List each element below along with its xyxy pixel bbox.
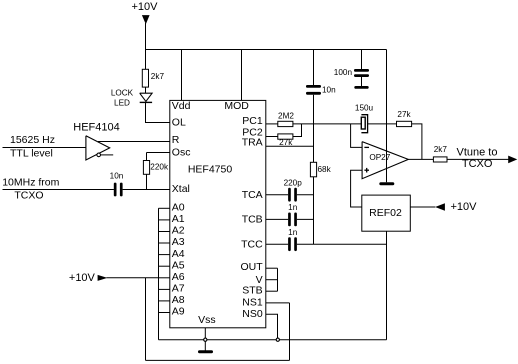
wire 10MHz input: [3, 189, 114, 191]
resistor 220k: [143, 161, 149, 175]
wire LED to OL pin: [146, 102, 171, 122]
wire NS0 stub and drop: [266, 314, 278, 338]
svg-text:1n: 1n: [288, 228, 298, 237]
svg-text:A9: A9: [172, 306, 185, 318]
wire 27k to PC1 node riser: [293, 124, 302, 137]
wire PC2 stub: [266, 136, 278, 138]
capacitor 10n (loop filter): [306, 85, 321, 88]
wire +10V to address bus: [107, 277, 159, 279]
wire +10V drop to bottom rail: [145, 278, 147, 361]
svg-text:68k: 68k: [318, 165, 332, 174]
svg-text:TRA: TRA: [242, 136, 263, 148]
wire 10n to Xtal pin: [123, 189, 170, 191]
svg-text:Vss: Vss: [198, 314, 216, 326]
wire +10V arrow to bus: [145, 23, 147, 50]
power +10V right arrow: [435, 203, 445, 211]
resistor 2k7 (LED series): [142, 69, 148, 87]
wire 100n to ground: [361, 77, 363, 86]
svg-text:27k: 27k: [397, 110, 411, 119]
wire TCA stub: [266, 194, 288, 196]
LED lock indicator: [140, 93, 152, 101]
svg-text:OUT: OUT: [241, 261, 264, 273]
wire NS1 riser: [289, 303, 291, 361]
wire top +10V bus: [146, 49, 387, 51]
svg-text:2k7: 2k7: [151, 72, 165, 81]
wire TRA stub: [266, 145, 314, 147]
svg-text:Vdd: Vdd: [172, 100, 191, 112]
wire MOD drop from bus: [241, 50, 243, 101]
svg-text:A7: A7: [172, 283, 185, 295]
op IC U1 HEF4750 body: [170, 100, 266, 327]
wire TCC to REF02 ground node: [297, 243, 387, 245]
address bus vertical: [158, 208, 160, 339]
svg-text:TTL level: TTL level: [10, 148, 53, 160]
svg-text:15625 Hz: 15625 Hz: [10, 134, 55, 146]
wire 2k7 to LED: [145, 87, 147, 93]
wire A6 stub: [159, 277, 171, 279]
resistor 27k (feedback): [397, 121, 412, 126]
svg-text:TCXO: TCXO: [462, 158, 493, 170]
svg-text:+10V: +10V: [69, 272, 96, 284]
svg-text:HEF4750: HEF4750: [188, 163, 233, 175]
svg-text:OP27: OP27: [369, 153, 390, 162]
wire TCC stub: [266, 243, 288, 245]
wire NS1 stub: [266, 302, 290, 304]
svg-text:A2: A2: [172, 225, 185, 237]
wire non-inverting input from REF02: [351, 170, 363, 207]
ground symbol 100n: [354, 86, 368, 89]
svg-text:A4: A4: [172, 248, 185, 260]
svg-text:150u: 150u: [355, 104, 374, 113]
wire TCB to 68k node: [297, 218, 314, 220]
wire 15625Hz input: [3, 147, 86, 149]
wire 10n to 68k: [313, 95, 315, 163]
wire V stub: [266, 279, 278, 281]
wire A1 stub: [159, 219, 171, 221]
svg-text:27k: 27k: [279, 138, 293, 147]
wire 68k to TCC: [313, 177, 315, 244]
op-amp U3 OP27: [362, 142, 408, 179]
wire A9 stub: [159, 312, 171, 314]
wire PC1 node to 150u: [293, 123, 361, 125]
wire REF02 ground drop: [386, 231, 388, 340]
wire output to Vtune arrow: [447, 158, 509, 160]
svg-text:100n: 100n: [334, 68, 353, 77]
wire Osc to 220k: [146, 153, 148, 161]
capacitor 100n: [354, 69, 369, 72]
svg-text:LOCK: LOCK: [111, 89, 134, 98]
wire bus drop to op-amp supply rail: [386, 50, 388, 141]
wire A2 stub: [159, 231, 171, 233]
wire OUT stub: [266, 267, 278, 269]
wire OUT-V-STB tie: [277, 268, 279, 291]
svg-text:LED: LED: [114, 99, 130, 108]
wire A0 stub: [159, 207, 171, 209]
svg-text:A6: A6: [172, 271, 185, 283]
svg-text:A0: A0: [172, 202, 185, 214]
junction circle NS0: [276, 338, 279, 341]
power +10V top arrow: [142, 15, 150, 24]
svg-text:STB: STB: [242, 285, 262, 297]
wire 220k to Xtal wire: [146, 174, 148, 189]
wire TCB stub: [266, 218, 288, 220]
resistor 2M2: [278, 121, 293, 126]
svg-text:PC1: PC1: [242, 115, 263, 127]
wire A7 stub: [159, 288, 171, 290]
svg-text:TCB: TCB: [242, 214, 263, 226]
wire bus to 10n: [313, 50, 315, 86]
wire STB stub: [266, 290, 278, 292]
capacitor 1n (TCC): [288, 237, 291, 251]
junction circle Vss crossover: [204, 338, 207, 341]
wire REF02 to +10V arrow: [410, 206, 435, 208]
wire 150u to 27k: [368, 123, 397, 125]
wire A5 stub: [159, 265, 171, 267]
svg-text:2k7: 2k7: [434, 145, 448, 154]
wire Osc pin: [147, 152, 171, 154]
svg-text:NS1: NS1: [242, 296, 263, 308]
svg-text:NS0: NS0: [242, 308, 263, 320]
wire bus to R 2k7: [145, 50, 147, 70]
capacitor 10n (Xtal coupling): [114, 183, 117, 197]
wire A8 stub: [159, 300, 171, 302]
resistor 27k (PC2): [278, 134, 293, 139]
svg-text:A8: A8: [172, 294, 185, 306]
svg-text:+10V: +10V: [132, 1, 159, 13]
wire TCA to 68k node: [297, 194, 314, 196]
arrow Vtune output: [508, 156, 517, 164]
svg-text:HEF4104: HEF4104: [73, 122, 119, 134]
svg-text:Osc: Osc: [172, 146, 191, 158]
svg-text:2M2: 2M2: [278, 112, 294, 121]
resistor 68k: [310, 162, 316, 177]
svg-text:220p: 220p: [284, 179, 303, 188]
power +10V mid arrow: [98, 275, 108, 281]
wire PC1 stub: [266, 123, 278, 125]
op IC U4 REF02 body: [362, 195, 411, 231]
svg-text:MOD: MOD: [224, 100, 249, 112]
svg-text:TCA: TCA: [242, 189, 263, 201]
svg-text:10n: 10n: [322, 86, 336, 95]
wire bottom +10V rail: [146, 359, 290, 361]
svg-text:R: R: [172, 134, 180, 146]
svg-text:10MHz from: 10MHz from: [2, 177, 59, 189]
svg-text:TCC: TCC: [241, 239, 263, 251]
ground symbol op-amp: [379, 182, 394, 185]
wire Vdd drop from bus: [181, 50, 183, 101]
wire A3 stub: [159, 242, 171, 244]
wire op-amp supply drop through symbol: [386, 140, 388, 182]
wire A4 stub: [159, 254, 171, 256]
wire inverting input: [351, 124, 363, 147]
wire 27k to output node: [412, 124, 422, 159]
svg-text:A5: A5: [172, 259, 185, 271]
svg-text:A1: A1: [172, 213, 185, 225]
svg-text:220k: 220k: [150, 163, 169, 172]
wire op-amp output: [408, 158, 433, 160]
svg-text:Xtal: Xtal: [172, 183, 190, 195]
resistor 2k7 (output): [433, 157, 447, 162]
svg-text:A3: A3: [172, 236, 185, 248]
svg-text:OL: OL: [172, 116, 186, 128]
svg-text:1n: 1n: [288, 203, 298, 212]
ground symbol Vss: [198, 350, 213, 353]
wire bus to 100n: [361, 50, 363, 70]
svg-text:TCXO: TCXO: [14, 190, 43, 202]
wire buffer output to R pin: [98, 141, 170, 143]
svg-text:+10V: +10V: [451, 201, 478, 213]
capacitor 150u electrolytic: [361, 117, 365, 129]
capacitor 220p (TCA): [288, 188, 291, 202]
capacitor 1n (TCB): [288, 213, 291, 227]
svg-text:10n: 10n: [110, 172, 124, 181]
svg-text:REF02: REF02: [369, 207, 402, 219]
wire Vss to ground: [204, 328, 206, 351]
wire ground rail: [159, 339, 387, 341]
